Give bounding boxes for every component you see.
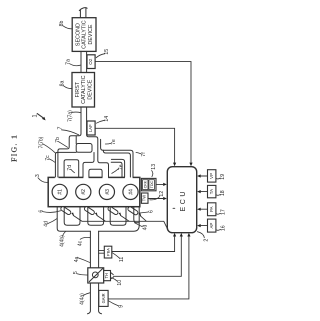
exhaust manifold runner 7f inner	[103, 150, 130, 177]
intake port window 2	[88, 207, 104, 225]
ECU 2	[167, 167, 196, 233]
label 9	[108, 301, 124, 308]
label 4d left	[44, 219, 57, 227]
svg-text:12: 12	[159, 191, 165, 197]
svg-text:11: 11	[119, 257, 125, 262]
figure title FIG. 1	[10, 134, 19, 162]
wire injectors to ECU	[73, 215, 168, 230]
svg-text:7b: 7b	[55, 137, 61, 143]
label 3	[35, 174, 48, 182]
svg-text:FIRST: FIRST	[75, 81, 81, 97]
svg-text:9: 9	[118, 305, 124, 308]
label 7d	[67, 165, 74, 173]
intake port window 1	[64, 207, 80, 225]
svg-text:4d: 4d	[44, 221, 50, 227]
wire GAIR to ECU	[108, 233, 190, 299]
wire intake pipe plenum to throttle	[90, 231, 98, 268]
throttle sensor TH 10	[104, 271, 114, 281]
exhaust manifold runner 7e inner	[111, 162, 122, 177]
injector 6 cylinder 1	[60, 206, 74, 217]
label 5	[73, 271, 88, 275]
label 6 right	[140, 210, 155, 213]
exhaust manifold runner 7c left inner	[58, 107, 81, 177]
svg-text:7d: 7d	[67, 165, 73, 171]
exhaust manifold window 7d	[64, 160, 79, 177]
svg-text:7f: 7f	[141, 152, 147, 157]
vehicle speed sensor VP 19	[208, 170, 216, 182]
wire intake duct 4(4a)	[88, 283, 102, 314]
intake port window 3	[110, 207, 126, 225]
label 12	[150, 191, 165, 200]
engine block 3	[48, 176, 140, 207]
exhaust manifold collector right wall	[87, 107, 109, 177]
label 6 left	[39, 210, 61, 213]
svg-text:7c: 7c	[45, 155, 51, 161]
svg-text:GAIR: GAIR	[101, 293, 106, 303]
label 1 figure arrow	[32, 114, 45, 121]
wire LAF sensor to ECU	[95, 128, 176, 166]
svg-text:#4: #4	[128, 189, 134, 195]
intake manifold 4(4b) outline	[57, 207, 139, 232]
air flow sensor GAIR 9	[99, 290, 108, 306]
svg-text:13: 13	[151, 164, 157, 170]
svg-text:O2: O2	[88, 58, 93, 65]
exhaust manifold fan wall left	[75, 136, 77, 144]
svg-text:DEVICE: DEVICE	[87, 79, 93, 99]
label 7(7b)	[39, 136, 56, 152]
label 7a	[66, 59, 81, 66]
label 14	[96, 116, 110, 123]
svg-text:TA: TA	[209, 189, 214, 194]
crank/TDC sensor 13	[141, 178, 156, 190]
wire tailpipe open end	[79, 8, 87, 17]
svg-text:4d: 4d	[143, 225, 149, 231]
label 7f	[136, 152, 147, 157]
manifold pressure sensor PBA 11	[99, 246, 112, 258]
coolant temp sensor TW 12	[141, 193, 148, 203]
label 7(7a)	[68, 110, 81, 122]
injector 6 cylinder 4	[127, 206, 141, 217]
svg-text:17: 17	[220, 209, 226, 215]
svg-text:3: 3	[35, 174, 41, 177]
label 4(4a)	[79, 293, 90, 305]
svg-text:ECU: ECU	[180, 189, 187, 212]
cylinder #1	[52, 184, 67, 199]
wire TH to ECU	[113, 233, 183, 276]
svg-text:VP: VP	[209, 173, 214, 179]
O2 sensor 15	[87, 55, 95, 69]
atmospheric pressure sensor PA 17	[208, 203, 216, 216]
svg-text:LAF: LAF	[88, 124, 93, 132]
svg-text:4a: 4a	[74, 257, 80, 263]
exhaust manifold window central	[89, 169, 102, 177]
exhaust manifold runner 7f outer	[101, 139, 133, 177]
label 8b	[59, 21, 72, 29]
svg-text:TH: TH	[104, 273, 109, 279]
svg-text:SECOND: SECOND	[75, 23, 81, 46]
exhaust manifold collector foot left edge	[83, 153, 94, 178]
label 16	[216, 225, 227, 231]
cylinder #3	[99, 184, 114, 199]
svg-text:CATALYTIC: CATALYTIC	[82, 20, 88, 49]
svg-text:CRK: CRK	[143, 180, 147, 188]
svg-text:TDC: TDC	[150, 181, 154, 189]
svg-text:8a: 8a	[60, 81, 66, 87]
wire exhaust pipe 7a between catalytic devices	[81, 51, 87, 72]
accelerator sensor AP 16	[208, 219, 216, 232]
label 11	[112, 253, 125, 262]
svg-text:7e: 7e	[111, 139, 117, 145]
label 4c	[77, 237, 90, 246]
svg-text:#1: #1	[58, 189, 64, 195]
exhaust manifold runner 7c left outer	[55, 152, 76, 177]
wire PBA to ECU	[112, 233, 176, 252]
wire VP to ECU	[197, 174, 207, 177]
svg-text:FIG. 1: FIG. 1	[10, 134, 19, 162]
cylinder #4	[123, 184, 138, 199]
label 18	[216, 190, 226, 196]
svg-text:16: 16	[221, 225, 227, 231]
svg-text:AP: AP	[209, 223, 214, 229]
injector 6 cylinder 3	[107, 206, 121, 217]
LAF sensor 14	[87, 121, 95, 135]
intake port window 4	[134, 207, 139, 223]
label 10	[112, 278, 124, 286]
label 13	[151, 164, 157, 177]
second catalytic device 8b	[72, 18, 96, 52]
label 7b	[55, 137, 68, 147]
svg-text:PBA: PBA	[105, 248, 110, 256]
wire TA to ECU	[197, 190, 207, 193]
wire AP to ECU	[197, 224, 207, 227]
svg-text:7e: 7e	[118, 164, 124, 170]
svg-text:19: 19	[220, 174, 226, 180]
exhaust manifold runner 7e outer	[111, 159, 124, 177]
label 7e lower	[112, 164, 125, 173]
svg-text:7(7a): 7(7a)	[68, 110, 74, 122]
svg-text:DEVICE: DEVICE	[88, 24, 94, 44]
svg-text:18: 18	[220, 190, 226, 196]
svg-text:10: 10	[117, 280, 123, 286]
svg-text:7: 7	[57, 126, 63, 129]
svg-text:14: 14	[104, 116, 110, 122]
throttle body 5	[88, 268, 104, 283]
label 7e upper	[105, 139, 117, 145]
wire TW to ECU	[148, 197, 167, 200]
label 15	[96, 49, 110, 58]
cylinder #2	[76, 184, 91, 199]
wire CRK/TDC to ECU	[156, 183, 167, 186]
svg-text:4c: 4c	[77, 240, 83, 246]
label 8a	[60, 81, 73, 89]
intake air temp sensor TA 18	[208, 185, 216, 197]
svg-text:7(7b): 7(7b)	[39, 136, 45, 148]
svg-text:6: 6	[149, 210, 155, 213]
svg-text:#3: #3	[105, 189, 111, 195]
wire O2 sensor to ECU	[95, 62, 192, 167]
svg-text:2: 2	[204, 239, 210, 242]
svg-text:CATALYTIC: CATALYTIC	[81, 75, 87, 104]
label 4a	[74, 257, 90, 263]
wire PA to ECU	[197, 208, 207, 211]
exhaust manifold window upper	[76, 144, 92, 153]
svg-text:#2: #2	[81, 189, 87, 195]
label 19	[216, 174, 226, 180]
label 4d right	[135, 223, 149, 230]
label 7c	[45, 155, 55, 163]
label 7	[57, 126, 78, 134]
svg-text:8b: 8b	[59, 21, 65, 27]
first catalytic device 8a	[72, 73, 95, 108]
label 2	[197, 232, 209, 242]
injector 6 cylinder 2	[84, 206, 98, 217]
svg-text:PA: PA	[209, 206, 214, 212]
label 17	[216, 209, 226, 215]
label 4(4b)	[60, 232, 66, 247]
svg-text:TW: TW	[142, 195, 147, 202]
